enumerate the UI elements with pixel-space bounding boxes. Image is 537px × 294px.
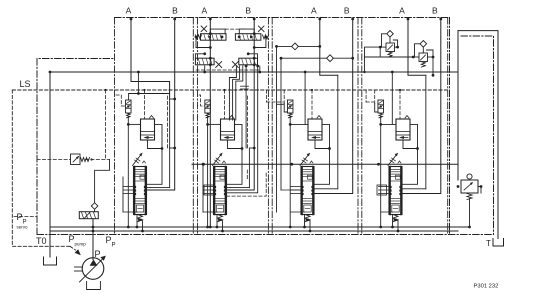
section 1: port A line [130,18,132,82]
orifice to pump regulator [91,203,98,210]
svg-text:P: P [112,243,116,249]
pump case drain bracket [87,282,101,290]
tank loop line [458,31,498,239]
section 3: spool drain lines [304,215,306,228]
section divider pair 4 [357,18,359,235]
left dashed servo box [12,90,70,246]
section 3: B elbow into spool [314,18,353,194]
section 3: proportional control arrow [300,154,309,166]
pump variable arrow [80,258,105,283]
svg-text:B: B [344,6,350,16]
section 2: spool spring [218,215,223,222]
boundary bottom edge [37,234,494,236]
section 4: left attachment [381,211,393,213]
LS dashed drop [105,90,107,160]
section 3 check A drop [276,46,278,212]
section divider pair 3 [267,18,269,235]
section 1: LS drop to compensator [144,90,146,119]
svg-text:A: A [399,6,405,16]
section 1: pilot vertical [127,117,129,228]
section 2: pilot pressure reducer [205,100,211,113]
section 2 anti-cavitation valve A [195,58,214,65]
section 4: gallery feed right of pilot [391,72,393,124]
T0 return line [49,72,51,257]
section 4: work line bundle [402,188,426,190]
tank-loop dash-dot box [461,36,494,235]
svg-text:servo: servo [17,225,29,230]
svg-text:B: B [432,6,438,16]
section 2: B elbow into spool [227,18,255,190]
section 3: port B line marker [351,18,354,21]
section 1: A port upper jog [131,82,170,100]
section 3: main spool valve [301,167,314,215]
section divider 1 [114,18,116,235]
svg-text:LS: LS [20,79,31,89]
section 2: relief discharge S-bundle [229,66,236,120]
section 1: left attachment [122,177,124,212]
section 1: compensator bottom loop [148,140,163,149]
LS relief valve [71,154,81,165]
section 1: compensator right line [147,124,163,184]
section 3: compensator bottom loop [315,140,330,149]
section 2 relief dashed bracket [225,28,245,30]
section 2: compensator bottom loop [228,140,243,149]
section 1: spool drain lines [136,215,138,228]
section 4: port B line marker [439,18,442,21]
section 3: gallery feed right of pilot [304,72,306,124]
svg-text:A: A [126,6,132,16]
section 4: compensator left stub [381,123,396,125]
section 2: port B line marker [253,18,256,21]
outer manifold boundary (dash-dot) [37,59,115,235]
LS relief dashed out [86,159,110,161]
section 4: port A line [408,18,426,75]
LS signal line (dashed) [12,89,449,91]
section 2: spool drain lines [216,215,218,228]
boundary right edge [449,18,451,235]
section 2: extra bundle line [227,67,258,193]
svg-text:B: B [172,6,178,16]
section 3: pilot pressure reducer [287,100,293,113]
section 2: compensator right line [227,124,243,184]
section 3: compensator left stub [290,123,308,125]
pump gallery lower [50,230,458,232]
section 1: spool spring [138,215,143,222]
section divider pair 2 [192,18,194,235]
inner right divider [447,18,449,235]
section 1: main spool valve [134,167,147,215]
section 3: pressure compensator [308,119,322,140]
section 2: left attachment [202,164,204,212]
variable displacement pump [82,258,104,280]
section 1: pressure compensator [141,119,155,140]
section 3 check B drop [280,58,282,190]
section 1: B elbow into spool [147,18,175,190]
section 1: pilot pressure reducer [126,100,132,113]
section 1: dashed comp side [167,96,169,150]
end plate relief valve [461,180,478,193]
T0 tank symbol [44,257,57,265]
section 3: LS drop to compensator [311,90,313,119]
section 3: port A line [320,18,338,75]
section 2 anti-cav dashed [196,69,260,71]
section 3: compensator right line [314,124,330,184]
section 2: LS drop to compensator [224,90,226,119]
junction dots [202,163,205,166]
LS link corner [95,160,110,203]
regulator to pump line [92,219,94,260]
end plate valve drain [469,199,471,228]
svg-text:T0: T0 [36,236,47,246]
section 4: pilot pressure reducer [378,100,384,113]
section 1: work line bundle [147,187,170,189]
section 1: proportional control arrow [133,154,142,166]
section 2: port A line [209,18,211,227]
section 2: pressure compensator [221,119,235,140]
section 2 port relief valve B upper [235,34,261,41]
section 4: B elbow into spool [402,18,441,194]
LS relief valve dashed feed [37,159,71,161]
section 2: compensator left stub [208,123,221,125]
section 3: spool spring [305,215,310,222]
section 3: work line bundle [314,188,338,190]
P servo dashed stub [14,216,37,218]
section 2: bundle vertical up to anti-cav [245,66,247,148]
section 3 check valve line B [281,57,353,59]
section 4: LS drop to compensator [399,90,401,119]
section 1: port B line marker [173,18,176,21]
section 1: compensator left stub [128,123,140,125]
svg-text:pump: pump [75,242,87,247]
section 4: pilot vertical [380,117,382,228]
section 4 pressure valve 2 [420,41,427,48]
svg-text:T: T [486,239,491,248]
section 2: pilot vertical [207,117,209,228]
section 4: main spool valve [389,167,402,215]
section 4: spool drain lines [392,215,394,228]
pump gallery upper [50,226,470,228]
section 2: work line bundle [227,187,250,189]
section 4 valve interconnect [365,47,414,57]
section 2: dashed comp side [247,96,249,150]
section 2: Z links [241,85,249,87]
svg-text:A: A [311,6,317,16]
section 2: proportional control arrow [213,154,222,166]
section 4 pressure valve 1 [387,31,394,38]
pump pressure regulator valve [79,212,98,219]
section 2: main spool valve [214,167,227,215]
pump suction lines [75,266,83,268]
tank gallery [50,71,458,73]
section 3: left attachment [290,211,304,213]
section 1: pilot feed chain [137,72,139,94]
section 3 pilot feed line [277,103,285,105]
section 4: compensator bottom loop [403,140,418,149]
section 3: pilot vertical [289,117,291,228]
servo line arrow to pump [70,246,76,250]
svg-text:P301 232: P301 232 [474,284,499,290]
section 2: dashed pilot elbow [227,172,267,196]
section 2 anti-cavitation valve B [239,58,258,65]
section 4: proportional control arrow [388,154,397,166]
svg-text:B: B [245,6,251,16]
svg-text:A: A [201,6,207,16]
section 3 check valve line A [277,45,320,47]
section 4: spool spring [393,215,398,222]
section 2 anti-cav drains [204,66,206,72]
section 2 port relief valve A upper [201,34,227,41]
section 4: compensator right line [402,124,418,184]
section 1: bundle upper tie [169,99,171,148]
section 4: pressure compensator [396,119,410,140]
pilot gallery [192,163,458,165]
